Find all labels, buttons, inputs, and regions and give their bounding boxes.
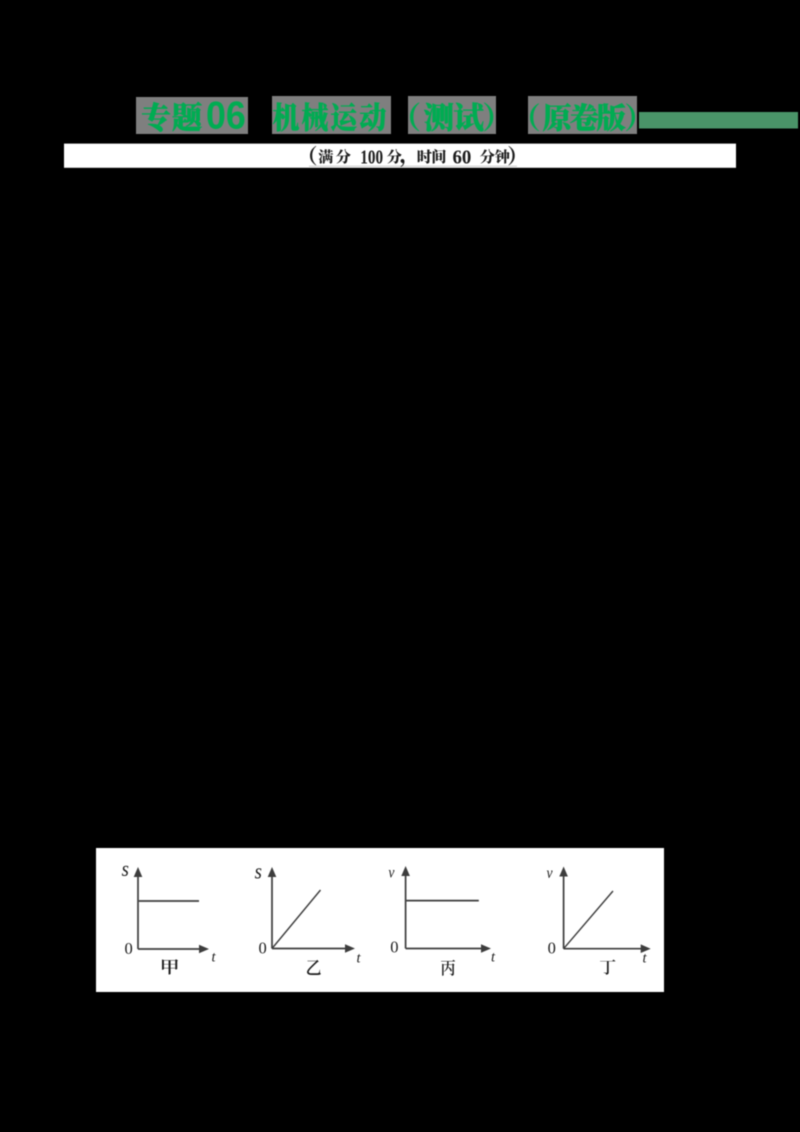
svg-text:v: v	[547, 865, 553, 882]
svg-text:0: 0	[548, 939, 556, 958]
svg-text:60: 60	[453, 146, 472, 169]
faint underline below subtitle text	[309, 166, 517, 167]
svg-text:0: 0	[390, 938, 398, 957]
graph 乙: vertical axis	[271, 875, 273, 949]
graph 甲: horizontal axis	[138, 948, 201, 950]
title text 机械运动	[273, 102, 299, 131]
svg-text:100: 100	[360, 146, 383, 169]
title text 专题	[142, 102, 170, 132]
title highlight box A (专题 06)	[136, 97, 248, 134]
svg-text:06: 06	[206, 93, 246, 136]
white graphs panel	[96, 848, 664, 992]
title text （原卷版）	[530, 103, 539, 131]
graph 乙: caption 乙	[307, 960, 321, 975]
graph 丁: horizontal axis	[564, 948, 643, 950]
graph 丙: horizontal axis	[406, 948, 483, 950]
graph 甲: caption 甲	[162, 959, 178, 974]
title text （测试）	[410, 102, 419, 131]
title highlight box D (（原卷版）)	[528, 96, 637, 134]
graph 乙: data line	[272, 890, 321, 949]
svg-text:v: v	[388, 864, 394, 881]
white subtitle bar	[64, 144, 736, 168]
svg-text:s: s	[255, 860, 262, 884]
title highlight box B (机械运动)	[272, 96, 391, 134]
svg-text:0: 0	[125, 939, 133, 958]
graph 乙: horizontal axis	[272, 948, 347, 950]
graph 丙: caption 丙	[441, 960, 455, 976]
graph 甲: vertical axis	[137, 875, 139, 949]
title highlight box C (（测试）)	[408, 96, 496, 134]
subtitle text （满分 100 分，时间 60 分钟）	[310, 146, 316, 165]
graph 丁: caption 丁	[600, 960, 615, 975]
graph 丙: data line	[406, 900, 478, 902]
graph 丁: data line	[564, 891, 613, 949]
svg-text:0: 0	[259, 939, 267, 958]
graph 丁: vertical axis	[563, 875, 565, 949]
graph 丙: vertical axis	[405, 874, 407, 949]
graph 甲: data line	[139, 900, 199, 902]
svg-text:s: s	[122, 858, 129, 882]
green underline bar after title	[639, 112, 798, 129]
